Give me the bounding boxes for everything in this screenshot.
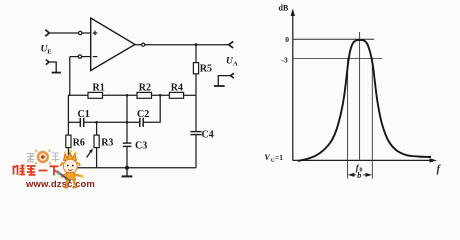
junction R1/R2 mid rail [126,94,129,97]
svg-text:R5: R5 [200,64,212,75]
svg-text:R1: R1 [93,83,105,94]
wire R5 rail upper [195,45,197,63]
svg-text:A: A [233,61,238,68]
capacitor C1 [80,118,83,127]
svg-text:b: b [357,171,361,180]
capacitor C3 [123,143,132,146]
input ground hook [46,60,61,73]
pin circle output [142,43,145,46]
wire R1 to R2 [103,94,138,96]
ground [122,168,133,177]
svg-text:=1: =1 [275,153,283,162]
svg-text:0: 0 [285,35,289,44]
pin circle - input [78,55,81,58]
junction R3 top [95,121,98,124]
response curve [298,40,431,161]
junction ground node [125,166,129,170]
wire R4 to R5 rail [184,94,196,96]
resistor R3 [94,135,99,148]
bandwidth b dimension [348,171,372,180]
capacitor C4 [190,132,201,135]
wire circle to op-amp minus [82,56,91,58]
wire R5 to R4 junction [195,74,197,96]
potentiometer arrow R3 [87,150,92,157]
wire R3 rail upper [96,122,98,135]
wire R4 junction down to C4 [195,95,197,131]
capacitor C2 [140,118,143,127]
wire C1 to mid rail [84,121,127,123]
wire R6 to bottom rail [67,148,69,168]
watermark red text 维库一下 [14,165,59,175]
resistor R4 [169,92,183,98]
VU=1 label [265,153,284,164]
f2 vertical line [371,58,373,178]
svg-text:-3: -3 [282,55,288,64]
op-amp U1 [91,18,135,71]
watermark mascot [57,150,84,188]
wire mid rail down [126,95,128,143]
0 level line [293,38,374,40]
resistor R2 [137,92,152,98]
wire bottom rail [68,167,196,169]
svg-text:C1: C1 [78,109,90,120]
wire inverting input [70,56,78,58]
wire circle to op-amp [82,32,91,34]
junction C row mid rail [126,121,129,124]
wire mid rail to C2 [127,121,140,123]
wire C3 to bottom rail [126,146,128,167]
output terminal chevron [229,42,234,49]
svg-text:V: V [265,153,271,162]
svg-text:dB: dB [279,4,289,13]
f0 vertical line [359,32,361,160]
watermark badge [35,150,51,164]
watermark grey text [27,153,60,162]
wire output to UA [145,44,229,46]
svg-text:R4: R4 [171,83,183,94]
junction output/R5 [195,43,198,46]
svg-text:C2: C2 [137,109,149,120]
wire R2 to R4 [152,94,170,96]
svg-text:R3: R3 [101,138,113,149]
wire non-inverting input [49,32,79,34]
f1 vertical line [347,58,349,178]
svg-text:C3: C3 [135,141,147,152]
wire op-amp output [135,44,142,46]
resistor R1 [88,92,103,98]
horizontal axis [293,159,434,161]
svg-text:www.dzsc.com: www.dzsc.com [25,179,95,190]
svg-text:R2: R2 [139,83,151,94]
wire C1 row left [68,121,80,123]
wire R1 row left [69,94,88,96]
svg-text:R6: R6 [73,138,85,149]
wire C2 drop [143,95,160,122]
svg-text:E: E [47,49,51,56]
vertical axis [292,12,294,161]
wire left rail from inverting input [68,57,69,136]
-3 level line [293,57,382,59]
svg-text:C4: C4 [202,130,214,141]
junction R2/R4 C2 drop [159,94,162,97]
wire R3 to bottom rail [96,148,98,168]
input terminal chevron [45,30,49,37]
pin circle + input [79,31,82,34]
resistor R6 [66,135,71,148]
output ground hook [214,73,234,86]
wire C4 to bottom rail [195,135,197,168]
resistor R5 [193,63,198,74]
